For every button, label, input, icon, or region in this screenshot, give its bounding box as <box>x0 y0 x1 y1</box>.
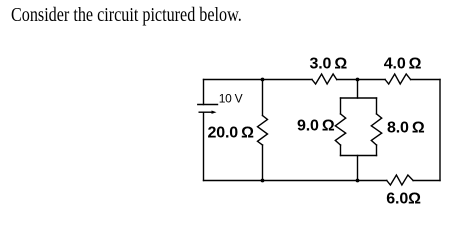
resistor R4 4.0 ohm zigzag <box>385 74 411 84</box>
node B top middle junction dot <box>356 78 360 82</box>
wire 9ohm branch lead bottom <box>340 145 342 156</box>
wire 20ohm branch top <box>262 80 264 116</box>
wire top left segment <box>204 79 313 81</box>
wire left vertical bottom <box>203 112 205 180</box>
svg-text:9.0 Ω: 9.0 Ω <box>297 117 335 134</box>
svg-text:10 V: 10 V <box>219 92 243 106</box>
node D bottom middle junction dot <box>356 179 360 183</box>
wire top middle segment <box>337 79 385 81</box>
battery B1 top plate <box>198 104 218 106</box>
battery arrow head <box>212 111 217 114</box>
svg-text:8.0 Ω: 8.0 Ω <box>387 120 425 137</box>
wire middle branch top <box>357 80 359 99</box>
wire top right segment <box>411 79 440 81</box>
wire parallel box bottom <box>341 155 377 157</box>
wire bottom left segment <box>204 180 387 182</box>
resistor R6 6.0 ohm zigzag <box>387 175 413 185</box>
wire parallel box top <box>341 97 377 99</box>
wire 8ohm branch lead bottom <box>376 145 378 156</box>
wire 8ohm branch lead top <box>376 98 378 114</box>
wire 9ohm branch lead top <box>340 98 342 114</box>
svg-text:6.0Ω: 6.0Ω <box>386 191 421 208</box>
resistor R8 8.0 ohm zigzag <box>371 114 381 145</box>
resistor R3 3.0 ohm zigzag <box>312 74 337 84</box>
wire right vertical <box>439 80 441 181</box>
resistor R20 20.0 ohm zigzag <box>258 116 268 146</box>
title text <box>11 5 242 27</box>
svg-text:3.0 Ω: 3.0 Ω <box>310 56 348 73</box>
battery B1 bottom plate <box>199 111 211 113</box>
resistor R9 9.0 ohm zigzag <box>335 114 345 145</box>
node A top left junction dot <box>261 78 265 82</box>
node C bottom left junction dot <box>261 179 265 183</box>
wire left vertical top (to battery) <box>203 80 205 105</box>
svg-text:4.0 Ω: 4.0 Ω <box>384 56 422 73</box>
wire 20ohm branch bottom <box>262 145 264 181</box>
svg-text:20.0 Ω: 20.0 Ω <box>208 124 255 141</box>
wire middle branch bottom <box>357 156 359 181</box>
wire bottom right segment <box>413 180 440 182</box>
